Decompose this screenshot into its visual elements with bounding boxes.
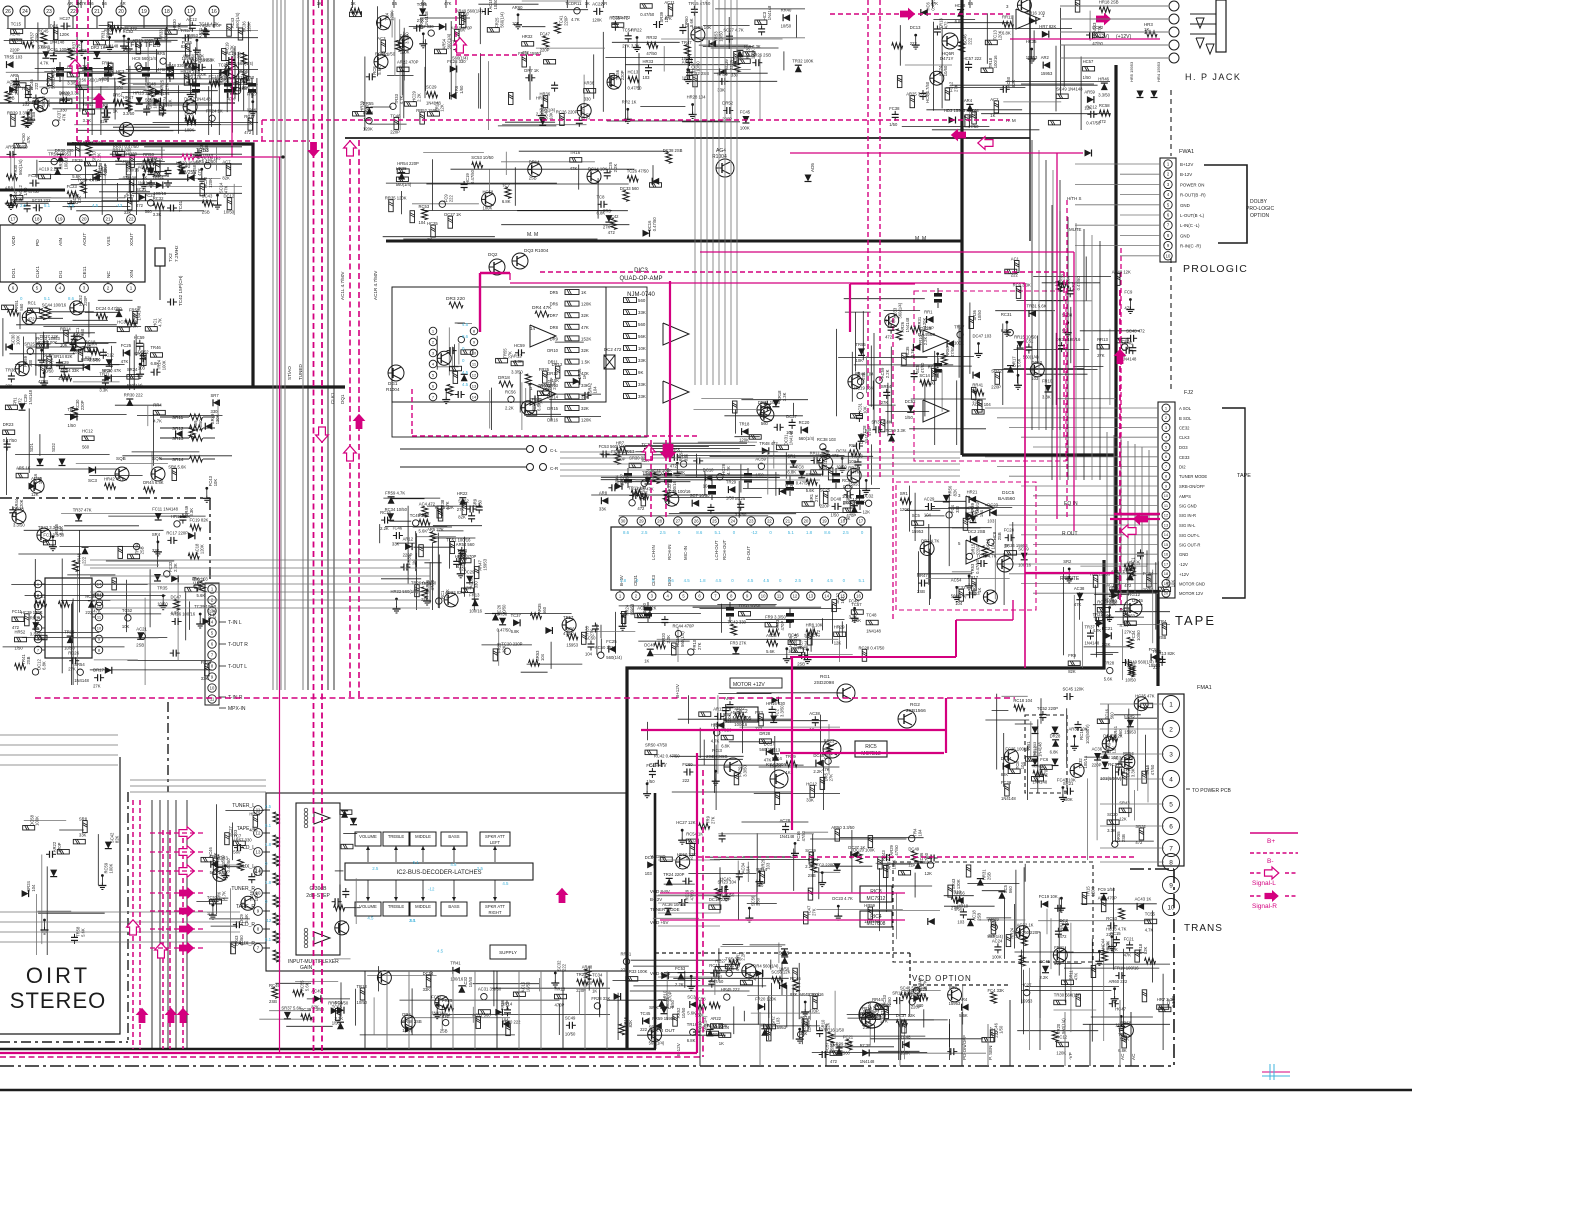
svg-text:DC57 1N4148: DC57 1N4148 <box>184 97 211 102</box>
svg-text:21: 21 <box>105 217 111 222</box>
svg-text:82K: 82K <box>1001 772 1009 777</box>
svg-text:472: 472 <box>1124 306 1132 311</box>
svg-text:472: 472 <box>637 506 645 511</box>
svg-text:220P: 220P <box>83 296 88 306</box>
svg-text:27K: 27K <box>843 501 851 506</box>
svg-text:TC46: TC46 <box>390 113 401 118</box>
signal path: solid magenta vertical <box>279 157 281 1053</box>
svg-text:10K: 10K <box>213 479 218 487</box>
svg-text:FR3: FR3 <box>755 710 764 715</box>
svg-text:SR8: SR8 <box>79 817 88 822</box>
resistor DR18 220 <box>499 381 513 387</box>
svg-text:RR10: RR10 <box>93 592 104 597</box>
svg-text:HC27 12K: HC27 12K <box>676 820 696 825</box>
svg-text:1K: 1K <box>786 770 791 775</box>
bridge RB1 PBL403 dashed box <box>1025 715 1067 793</box>
svg-text:10/50: 10/50 <box>493 0 498 10</box>
svg-text:560: 560 <box>82 444 90 449</box>
svg-text:27K: 27K <box>622 43 630 48</box>
component cluster: IC2 inputs left <box>339 813 341 884</box>
svg-text:RC39: RC39 <box>860 1043 871 1048</box>
transistor DQ2 R2004 <box>489 259 505 275</box>
wire runs into OIRT <box>0 734 118 736</box>
svg-text:AR12: AR12 <box>511 354 522 359</box>
svg-text:TZD2: TZD2 <box>146 156 158 161</box>
svg-text:9: 9 <box>473 339 476 344</box>
svg-text:32K: 32K <box>581 406 589 411</box>
wire: bottom dash-dot line <box>0 1065 1174 1067</box>
svg-text:4.7K: 4.7K <box>171 611 180 616</box>
svg-text:560(1/4): 560(1/4) <box>606 655 622 660</box>
svg-text:1/50: 1/50 <box>905 415 914 420</box>
svg-text:22: 22 <box>70 9 76 15</box>
svg-text:MIC-IN: MIC-IN <box>683 546 688 560</box>
svg-text:MOTOR +12V: MOTOR +12V <box>733 682 765 688</box>
svg-text:4.7K: 4.7K <box>399 95 404 104</box>
signal dashed box center column <box>867 0 869 480</box>
svg-text:0.47/50: 0.47/50 <box>796 480 811 485</box>
svg-text:10/50: 10/50 <box>681 1007 686 1018</box>
wire: IC2 block right thick border <box>654 793 657 1049</box>
transistor HQ5R D471Y <box>942 33 958 49</box>
svg-text:222: 222 <box>448 195 453 203</box>
svg-text:TR38: TR38 <box>5 368 16 373</box>
svg-text:12K: 12K <box>863 509 871 514</box>
svg-text:DOLBY: DOLBY <box>1250 199 1268 205</box>
svg-text:SR54: SR54 <box>881 384 892 389</box>
component cluster: OIRT inner parts <box>38 912 105 914</box>
svg-text:FR39: FR39 <box>72 158 83 163</box>
svg-text:100K: 100K <box>16 335 21 345</box>
svg-text:5.6K: 5.6K <box>197 593 206 598</box>
svg-text:SC30: SC30 <box>1107 812 1118 817</box>
svg-text:4: 4 <box>667 594 670 599</box>
svg-text:3.3/50: 3.3/50 <box>742 764 747 776</box>
svg-text:560: 560 <box>220 855 225 863</box>
svg-text:15953: 15953 <box>1041 71 1053 76</box>
component cluster: right of RIC3 <box>986 917 1011 919</box>
wire: thick bus left horizontal <box>0 385 345 388</box>
svg-text:32K: 32K <box>581 348 589 353</box>
component cluster: above tape IC <box>740 464 742 493</box>
svg-text:1: 1 <box>1167 162 1170 167</box>
svg-text:DC37 12K: DC37 12K <box>896 1013 916 1018</box>
svg-text:220P: 220P <box>1092 763 1102 768</box>
svg-text:6: 6 <box>12 286 15 291</box>
svg-text:33K: 33K <box>79 833 87 838</box>
svg-text:AC1: AC1 <box>1011 257 1020 262</box>
svg-text:3: 3 <box>1167 182 1170 187</box>
svg-text:TC45: TC45 <box>640 1011 651 1016</box>
svg-text:120K: 120K <box>240 85 250 90</box>
svg-text:LCH-IN: LCH-IN <box>651 545 656 560</box>
svg-text:14: 14 <box>824 594 829 599</box>
OIRT STEREO region border <box>0 497 210 499</box>
signal arrow FD1 up <box>556 888 569 903</box>
svg-text:AR22 470P: AR22 470P <box>397 59 419 64</box>
svg-text:TR55: TR55 <box>856 342 867 347</box>
svg-text:SC43: SC43 <box>202 193 213 198</box>
svg-text:152K: 152K <box>581 336 591 341</box>
svg-text:1/50: 1/50 <box>755 897 760 906</box>
svg-text:1/50: 1/50 <box>726 496 735 501</box>
svg-text:1/50: 1/50 <box>23 187 28 196</box>
svg-text:5.6K: 5.6K <box>1120 1036 1129 1041</box>
svg-text:DC47 103: DC47 103 <box>973 334 993 339</box>
svg-text:FC2 220P: FC2 220P <box>816 863 835 868</box>
svg-text:FC15: FC15 <box>1110 931 1121 936</box>
IC T1 body <box>0 225 145 282</box>
svg-text:330: 330 <box>211 409 219 414</box>
svg-text:TC46: TC46 <box>885 319 896 324</box>
legend Signal-L <box>1250 872 1262 874</box>
svg-text:HR59: HR59 <box>864 903 875 908</box>
svg-text:220P: 220P <box>911 1005 921 1010</box>
svg-text:3.3K: 3.3K <box>1042 395 1051 400</box>
wire bundle center verticals top <box>694 0 696 385</box>
diode HD3 15953 <box>949 117 956 124</box>
svg-text:47K: 47K <box>121 359 129 364</box>
svg-text:100K: 100K <box>900 1051 910 1056</box>
svg-text:47K: 47K <box>581 325 589 330</box>
svg-text:OPTION: OPTION <box>1250 213 1270 219</box>
wire verticals bottom middle <box>699 1000 701 1066</box>
svg-text:13: 13 <box>256 850 261 855</box>
signal path: long dashed horizontal y698 <box>35 697 1015 699</box>
svg-text:2: 2 <box>107 286 110 291</box>
svg-text:50K: 50K <box>276 859 281 866</box>
svg-text:TR16: TR16 <box>64 630 75 635</box>
svg-text:HR16 330: HR16 330 <box>766 701 786 706</box>
DIC4 dashed magenta box <box>914 291 1066 461</box>
svg-text:6.8K: 6.8K <box>1002 30 1011 35</box>
svg-text:222: 222 <box>34 82 39 90</box>
svg-text:B+12V: B+12V <box>1180 162 1193 167</box>
IC2 block outer border <box>266 793 626 971</box>
svg-text:104: 104 <box>593 386 598 394</box>
svg-text:FC9: FC9 <box>1124 290 1133 295</box>
signal path: RIC3 magenta <box>660 892 905 894</box>
svg-text:50K: 50K <box>276 817 281 824</box>
svg-text:24: 24 <box>730 519 735 524</box>
svg-text:50K: 50K <box>276 955 281 962</box>
svg-text:8: 8 <box>1165 474 1168 479</box>
component cluster: right of DIC5 <box>1063 567 1065 655</box>
svg-text:DR9: DR9 <box>550 336 559 341</box>
svg-text:6: 6 <box>1165 454 1168 459</box>
svg-text:HC58: HC58 <box>483 189 494 194</box>
svg-text:FC21: FC21 <box>1124 936 1135 941</box>
svg-text:R1004: R1004 <box>386 387 400 392</box>
svg-text:3.3K: 3.3K <box>1131 768 1136 777</box>
svg-text:25: 25 <box>712 519 717 524</box>
component cluster: power sense area <box>949 1024 951 1047</box>
svg-text:L-IN(C -L): L-IN(C -L) <box>1180 223 1200 228</box>
svg-text:HD3 15953: HD3 15953 <box>944 108 966 113</box>
svg-text:DR3 220: DR3 220 <box>446 296 465 302</box>
svg-text:1N4148: 1N4148 <box>866 629 881 634</box>
svg-text:FMA1: FMA1 <box>1197 685 1212 691</box>
svg-text:1N4148: 1N4148 <box>860 1059 875 1064</box>
svg-text:FC52 15953: FC52 15953 <box>611 449 635 454</box>
svg-text:103: 103 <box>766 862 771 870</box>
svg-text:TC8 3.3K: TC8 3.3K <box>743 44 761 49</box>
svg-text:AR36: AR36 <box>584 81 595 86</box>
svg-text:11: 11 <box>1164 503 1169 508</box>
svg-text:HR29: HR29 <box>834 624 845 629</box>
signal path: magenta M.M line right <box>790 152 1083 154</box>
signal path: H section dashed <box>830 13 1010 15</box>
svg-text:560(1/4): 560(1/4) <box>898 302 903 318</box>
svg-text:33K: 33K <box>638 310 646 315</box>
svg-text:47/50: 47/50 <box>1150 764 1155 775</box>
svg-text:82K: 82K <box>134 351 142 356</box>
svg-text:2.2K: 2.2K <box>675 982 684 987</box>
svg-text:2: 2 <box>1167 172 1170 177</box>
svg-text:17: 17 <box>1164 561 1169 566</box>
svg-text:100K: 100K <box>483 205 493 210</box>
svg-text:RR13: RR13 <box>1097 337 1108 342</box>
svg-text:2SB: 2SB <box>529 176 537 181</box>
svg-text:8: 8 <box>1169 859 1173 866</box>
signal arrow HR8P <box>1096 13 1111 26</box>
signal path: main left dashed verticals <box>313 0 315 1053</box>
svg-text:DR23: DR23 <box>3 422 14 427</box>
svg-text:10/50: 10/50 <box>224 210 235 215</box>
svg-text:TC48: TC48 <box>900 1035 911 1040</box>
svg-text:1/50: 1/50 <box>889 122 898 127</box>
svg-text:HR8 10K: HR8 10K <box>806 622 823 627</box>
component cluster: FIC1 filter area <box>385 526 447 528</box>
svg-text:470P: 470P <box>780 621 785 631</box>
svg-text:220P: 220P <box>991 384 1001 389</box>
svg-text:10: 10 <box>1164 493 1169 498</box>
svg-text:47K: 47K <box>224 185 229 193</box>
svg-text:120K: 120K <box>215 414 220 424</box>
svg-text:AC59: AC59 <box>755 456 766 461</box>
svg-text:9: 9 <box>1169 882 1173 889</box>
svg-text:10/50: 10/50 <box>468 976 473 987</box>
svg-text:103: 103 <box>776 1017 781 1025</box>
svg-text:23: 23 <box>46 9 52 15</box>
svg-text:B+12V: B+12V <box>675 683 680 698</box>
svg-text:1K: 1K <box>582 374 587 379</box>
svg-text:AR50 3.3/50: AR50 3.3/50 <box>831 825 855 830</box>
svg-text:120K: 120K <box>581 302 591 307</box>
svg-text:TUNER_R: TUNER_R <box>231 886 255 892</box>
svg-text:8: 8 <box>473 328 476 333</box>
svg-text:2.2K: 2.2K <box>416 93 421 102</box>
op-amp DIC4b <box>923 400 949 422</box>
svg-text:1N4148: 1N4148 <box>1033 780 1048 785</box>
svg-text:TR41: TR41 <box>450 960 461 965</box>
svg-text:2SB: 2SB <box>625 476 630 484</box>
svg-text:AR4: AR4 <box>964 98 973 103</box>
svg-text:1K: 1K <box>1144 27 1149 32</box>
svg-text:8: 8 <box>98 647 101 652</box>
svg-text:FR50: FR50 <box>129 307 140 312</box>
svg-text:BASS: BASS <box>448 904 459 909</box>
svg-text:100K: 100K <box>153 99 158 109</box>
svg-text:120K: 120K <box>1090 887 1095 897</box>
svg-text:5: 5 <box>36 286 39 291</box>
svg-text:RIGHT: RIGHT <box>488 910 501 915</box>
ceramic filters TC26 TC27 row <box>84 67 92 71</box>
motor FAN <box>859 1002 885 1028</box>
svg-text:47K: 47K <box>1124 952 1132 957</box>
svg-text:103: 103 <box>138 366 146 371</box>
svg-text:104: 104 <box>918 829 923 837</box>
svg-text:1N4148: 1N4148 <box>74 678 89 683</box>
capacitors DC8 DC9 270P <box>934 293 942 297</box>
svg-text:10/50: 10/50 <box>836 464 847 469</box>
svg-text:POWER ON: POWER ON <box>1180 182 1204 187</box>
svg-text:SC53 10/50: SC53 10/50 <box>471 155 494 160</box>
svg-text:4.7K: 4.7K <box>222 891 227 900</box>
IC RIC4 MC7808 <box>860 911 892 927</box>
svg-text:CD_L: CD_L <box>242 845 255 851</box>
svg-text:DR4 47K: DR4 47K <box>532 305 552 311</box>
svg-text:10/50: 10/50 <box>43 368 54 373</box>
svg-text:HR33: HR33 <box>643 59 654 64</box>
capacitor TC42 15P <box>167 301 171 303</box>
svg-text:10: 10 <box>97 625 102 630</box>
svg-text:5: 5 <box>682 594 685 599</box>
svg-text:SR7: SR7 <box>211 393 220 398</box>
signal path: right solid magenta verticals <box>1056 153 1058 519</box>
component cluster: H headphone amp section <box>926 109 1022 111</box>
svg-text:5.6K: 5.6K <box>81 928 86 937</box>
connector FMA1 pins 9-10 <box>1163 877 1180 894</box>
svg-text:DC47: DC47 <box>171 595 182 600</box>
svg-text:104: 104 <box>585 652 593 657</box>
svg-text:SR14: SR14 <box>172 457 184 462</box>
svg-text:3.3K: 3.3K <box>83 118 92 123</box>
svg-text:DR8: DR8 <box>550 325 559 330</box>
svg-text:GAIN: GAIN <box>300 965 313 971</box>
svg-text:AR8: AR8 <box>599 491 608 496</box>
svg-text:33K: 33K <box>717 87 725 92</box>
svg-text:1N4148: 1N4148 <box>767 5 772 20</box>
svg-text:TC7: TC7 <box>502 183 511 188</box>
svg-text:32K: 32K <box>581 313 589 318</box>
svg-text:HC59: HC59 <box>514 343 525 348</box>
svg-text:220P: 220P <box>924 326 934 331</box>
svg-text:SR11: SR11 <box>172 415 184 420</box>
svg-text:10/50: 10/50 <box>157 602 168 607</box>
svg-text:AIN: AIN <box>58 237 64 246</box>
svg-text:DC43 12K: DC43 12K <box>1103 734 1123 739</box>
svg-text:3.3/50: 3.3/50 <box>780 705 785 717</box>
svg-text:RR1: RR1 <box>924 310 933 315</box>
svg-text:FR10: FR10 <box>1042 379 1053 384</box>
svg-text:SC25: SC25 <box>820 487 831 492</box>
svg-text:1N4148: 1N4148 <box>50 40 65 45</box>
signal path: OIRT left dashed verticals <box>132 800 134 1049</box>
svg-text:1/50: 1/50 <box>459 85 464 94</box>
svg-text:RC46: RC46 <box>788 632 799 637</box>
svg-text:7: 7 <box>714 594 717 599</box>
svg-text:RC17 220P: RC17 220P <box>166 530 188 535</box>
svg-text:HC59: HC59 <box>134 335 145 340</box>
svg-text:120K: 120K <box>581 418 591 423</box>
svg-text:FC1 3.3/50: FC1 3.3/50 <box>43 533 64 538</box>
svg-text:DC52: DC52 <box>905 399 916 404</box>
svg-text:SC8: SC8 <box>43 352 52 357</box>
svg-text:TO POWER PCB: TO POWER PCB <box>1192 788 1231 794</box>
svg-text:HC12: HC12 <box>806 781 817 786</box>
svg-text:4: 4 <box>1167 192 1170 197</box>
jack C-R <box>527 464 534 471</box>
svg-text:PRO-LOGIC: PRO-LOGIC <box>1246 206 1274 212</box>
svg-text:SR5: SR5 <box>157 51 166 56</box>
svg-text:6.8K: 6.8K <box>1001 328 1010 333</box>
signal path: left dashed verticals top <box>76 0 78 141</box>
svg-text:DC27 1K: DC27 1K <box>444 212 461 217</box>
svg-text:DQ3 R1004: DQ3 R1004 <box>524 248 549 253</box>
resistor ladder DR5-DR15 <box>565 290 579 295</box>
signal path: dashed horizontals upper center <box>456 54 540 56</box>
svg-text:DG1: DG1 <box>388 381 398 386</box>
svg-text:RC28 0.47/50: RC28 0.47/50 <box>859 645 886 650</box>
svg-text:10/50: 10/50 <box>781 24 792 29</box>
svg-text:12K: 12K <box>908 862 916 867</box>
svg-text:FR39 2SB: FR39 2SB <box>833 1041 853 1046</box>
svg-text:560(1/4): 560(1/4) <box>18 159 23 175</box>
signal path: regulator bold lines <box>641 729 946 731</box>
component cluster: below regulators <box>714 858 755 860</box>
component cluster: right bottom trans area <box>1162 974 1164 1050</box>
svg-text:47K: 47K <box>764 758 772 763</box>
svg-text:RR4: RR4 <box>153 403 162 408</box>
svg-text:HR39: HR39 <box>536 96 547 101</box>
svg-text:TREBLE: TREBLE <box>388 834 404 839</box>
svg-text:1: 1 <box>1169 701 1173 708</box>
component cluster: FC7R caps row <box>295 981 338 983</box>
svg-text:24: 24 <box>22 9 28 15</box>
svg-text:12K: 12K <box>35 610 43 615</box>
svg-text:15: 15 <box>1164 542 1169 547</box>
svg-text:FC25: FC25 <box>121 343 132 348</box>
signal path: right dashed magenta verticals <box>1066 200 1068 520</box>
svg-text:0.47/50: 0.47/50 <box>226 858 231 873</box>
svg-text:RG3: RG3 <box>712 748 722 754</box>
svg-text:D-OUT: D-OUT <box>746 546 751 560</box>
svg-text:DR12: DR12 <box>552 362 563 367</box>
component cluster: below tape IC <box>810 634 812 652</box>
transistor DG1 R1004 <box>388 365 404 381</box>
svg-text:470P: 470P <box>38 379 48 384</box>
svg-text:26: 26 <box>5 9 11 15</box>
svg-text:10/50: 10/50 <box>779 966 790 971</box>
svg-text:SR50 47/50: SR50 47/50 <box>645 742 668 747</box>
svg-text:RC57: RC57 <box>928 364 939 369</box>
svg-text:PD: PD <box>35 239 41 246</box>
svg-text:1K: 1K <box>990 113 995 118</box>
svg-text:27K: 27K <box>812 908 817 916</box>
svg-text:HC57: HC57 <box>1083 59 1094 64</box>
svg-text:3: 3 <box>432 350 435 355</box>
svg-text:10/50: 10/50 <box>357 1000 368 1005</box>
svg-text:17: 17 <box>187 9 193 15</box>
IC2 tone boxes bottom row <box>355 902 381 916</box>
svg-text:RC26 220P: RC26 220P <box>556 110 578 115</box>
op-amp DIC3c <box>663 323 689 345</box>
svg-text:11: 11 <box>777 594 782 599</box>
svg-text:15953: 15953 <box>770 763 782 768</box>
svg-text:10: 10 <box>256 891 261 896</box>
svg-text:100/16: 100/16 <box>64 156 69 169</box>
